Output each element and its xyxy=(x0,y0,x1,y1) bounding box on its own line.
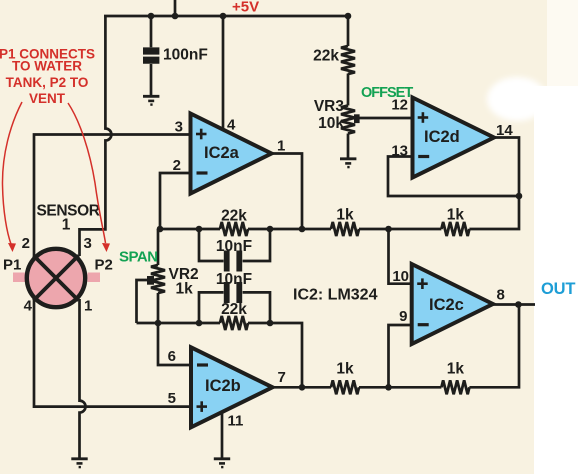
svg-text:1k: 1k xyxy=(336,361,354,378)
op-amp U3 IC2c xyxy=(412,264,493,344)
wire IC2b pin 5 to sensor pin 4 xyxy=(34,299,191,407)
annotation arrow to P1 xyxy=(2,102,22,252)
resistor 22k supply divider xyxy=(341,46,355,74)
svg-text:IC2b: IC2b xyxy=(205,377,241,395)
wire top row between 1k resistors xyxy=(359,228,441,231)
svg-text:IC2: LM324: IC2: LM324 xyxy=(293,287,378,304)
resistor 1k top right xyxy=(441,222,469,236)
wire IC2a pin 2 feedback node xyxy=(160,173,191,229)
wire IC2d pin 13 feedback loop xyxy=(388,157,519,197)
wire left rail to sensor pin 3 (with hop over pin3 wire) xyxy=(80,16,112,256)
capacitor 10nF bottom plates xyxy=(227,282,240,303)
resistor 22k top feedback xyxy=(220,222,248,236)
ground below sensor pin 1 xyxy=(71,459,87,467)
wire bottom feedback row left xyxy=(137,322,221,325)
potentiometer VR3 wiper xyxy=(354,114,360,123)
junction node: bottom row / bottom cap branch left xyxy=(196,320,203,327)
svg-text:7: 7 xyxy=(278,369,286,386)
svg-text:14: 14 xyxy=(496,122,513,139)
wire 22k to VR3 xyxy=(347,74,350,106)
svg-text:10nF: 10nF xyxy=(216,271,252,288)
wire IC2a output rail down to top row xyxy=(272,154,303,230)
wire IC2c pin 9 to bottom row node xyxy=(389,325,412,387)
svg-text:10k: 10k xyxy=(318,115,344,132)
potentiometer VR3 10k xyxy=(341,106,355,134)
svg-text:IC2a: IC2a xyxy=(204,144,240,162)
svg-text:11: 11 xyxy=(228,413,244,430)
junction node: IC2c output / OUT xyxy=(515,301,522,308)
wire VR2 wiper bracket xyxy=(137,280,148,323)
junction node: bus/22k divider xyxy=(345,13,352,20)
wire 100nF bottom lead to ground xyxy=(150,64,153,95)
junction node: IC2d feedback xyxy=(516,193,523,200)
wire 100nF top lead xyxy=(150,16,153,47)
svg-text:6: 6 xyxy=(168,348,176,365)
svg-text:3: 3 xyxy=(175,119,183,136)
wire IC2d output xyxy=(494,138,519,197)
wire VR3 wiper to IC2d pin 12 xyxy=(359,117,413,120)
svg-text:TO WATER: TO WATER xyxy=(12,59,82,74)
wire top row right to IC2d output rail xyxy=(469,196,519,229)
junction node: bus/100nF xyxy=(148,13,155,20)
junction node: top row / IC2c pin10 xyxy=(385,226,392,233)
annotation text P1 CONNECTS TO WATER TANK, P2 TO VENT xyxy=(0,47,95,107)
svg-text:1k: 1k xyxy=(176,281,194,298)
junction node: bus/IC2a pin4 xyxy=(220,13,227,20)
wire top 10nF branch left xyxy=(199,229,224,261)
wire IC2b output row left xyxy=(273,386,332,389)
wire top feedback row left xyxy=(160,228,220,231)
svg-text:+5V: +5V xyxy=(232,0,259,16)
svg-text:1k: 1k xyxy=(447,361,465,378)
ground below IC2b pin 11 xyxy=(214,459,230,467)
svg-text:8: 8 xyxy=(497,287,505,304)
svg-text:10nF: 10nF xyxy=(216,238,252,255)
svg-text:VR3: VR3 xyxy=(314,98,345,115)
junction node: IC2b output rail xyxy=(299,384,306,391)
wire +5V top bus xyxy=(104,15,348,18)
junction node: top row / IC2a output rail xyxy=(299,226,306,233)
wire IC2c pin 10 from top row node xyxy=(389,229,412,284)
svg-text:3: 3 xyxy=(84,235,92,252)
svg-text:1k: 1k xyxy=(447,207,465,224)
svg-text:9: 9 xyxy=(399,308,407,325)
svg-text:OUT: OUT xyxy=(541,280,575,298)
ground below 100nF xyxy=(143,96,159,104)
svg-text:TANK, P2 TO: TANK, P2 TO xyxy=(6,75,89,90)
wire IC2a pin 3 to sensor pin 2 xyxy=(34,135,191,257)
wire +5V feed stub xyxy=(174,0,177,16)
svg-text:22k: 22k xyxy=(313,48,339,65)
wire VR3 bottom to ground xyxy=(347,134,350,158)
ground below VR3 xyxy=(340,159,356,167)
wire top 10nF branch right xyxy=(243,229,270,261)
svg-text:1: 1 xyxy=(62,217,71,234)
op-amp U2 IC2b xyxy=(191,347,273,427)
wire bottom row between 1k resistors xyxy=(359,386,441,389)
wire top feedback row mid xyxy=(248,228,331,231)
svg-text:SPAN: SPAN xyxy=(119,249,158,266)
wire bus to 22k top xyxy=(347,16,350,46)
wire IC2b pin 11 to ground xyxy=(221,412,224,457)
svg-text:22k: 22k xyxy=(221,208,247,225)
resistor 1k bottom right xyxy=(441,380,469,394)
op-amp U1 IC2a xyxy=(191,114,272,194)
potentiometer VR2 wiper xyxy=(147,276,154,285)
svg-text:VENT: VENT xyxy=(29,91,66,106)
capacitor 100nF plates xyxy=(143,51,159,60)
wire VR2 top lead from node xyxy=(157,229,160,265)
svg-text:IC2c: IC2c xyxy=(429,296,464,314)
capacitor 10nF top plates xyxy=(227,251,240,272)
svg-text:1k: 1k xyxy=(336,207,354,224)
svg-text:10: 10 xyxy=(392,268,409,285)
wire VR2 bottom lead to IC2b pin 6 xyxy=(158,293,191,365)
svg-text:2: 2 xyxy=(22,235,30,252)
junction node: bottom row / IC2c pin9 xyxy=(385,384,392,391)
wire bottom 10nF branch right xyxy=(243,292,270,323)
wire IC2c output to OUT xyxy=(493,303,535,306)
svg-text:4: 4 xyxy=(24,298,33,315)
sensor pressure port tab P2 xyxy=(88,273,101,283)
svg-text:22k: 22k xyxy=(221,301,247,318)
svg-text:P2: P2 xyxy=(95,257,113,274)
resistor 22k bottom feedback xyxy=(220,316,248,330)
wire bottom row right up to IC2c output xyxy=(469,305,519,387)
junction node: IC2a pin2 at top row xyxy=(157,226,164,233)
junction node: bus/+5V stub xyxy=(172,13,179,20)
sensor bridge body xyxy=(27,249,85,307)
svg-text:P1: P1 xyxy=(3,257,21,274)
svg-text:1: 1 xyxy=(277,138,285,155)
svg-text:1: 1 xyxy=(84,298,92,315)
wire IC2a pin 4 supply stub xyxy=(222,16,225,130)
sensor pressure port tab P1 xyxy=(13,273,25,283)
junction node: top row / top cap branch left xyxy=(196,226,203,233)
junction node: bottom row / bottom cap branch right xyxy=(267,320,274,327)
svg-text:2: 2 xyxy=(173,157,181,174)
svg-text:13: 13 xyxy=(391,143,408,160)
resistor 1k top left xyxy=(331,222,359,236)
wire bottom 10nF branch left xyxy=(199,292,224,323)
wire sensor pin 1 to ground (with hop over pin5 wire) xyxy=(80,299,86,458)
wire bottom row right down to IC2b output xyxy=(248,323,302,387)
svg-text:4: 4 xyxy=(227,117,236,134)
junction node: top row / top cap branch right xyxy=(267,226,274,233)
junction node: bottom row / VR2 xyxy=(155,320,162,327)
svg-text:5: 5 xyxy=(168,390,176,407)
svg-text:IC2d: IC2d xyxy=(424,128,460,146)
svg-text:100nF: 100nF xyxy=(163,47,208,64)
potentiometer VR2 1k xyxy=(151,265,165,293)
resistor 1k bottom left xyxy=(331,380,359,394)
svg-text:12: 12 xyxy=(391,97,408,114)
annotation arrow to P2 xyxy=(68,103,110,252)
op-amp U4 IC2d xyxy=(413,98,495,178)
